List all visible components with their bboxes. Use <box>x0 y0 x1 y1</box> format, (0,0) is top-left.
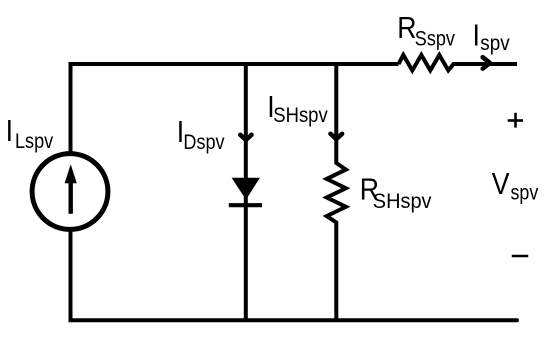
wire top rail with series resistor path <box>71 64 399 154</box>
svg-text:I: I <box>473 19 480 53</box>
svg-text:SHspv: SHspv <box>373 190 432 214</box>
svg-text:spv: spv <box>511 181 539 205</box>
resistor R_Sspv zigzag <box>399 55 518 70</box>
current source arrow <box>68 181 72 214</box>
arrow I_Dspv on diode branch <box>240 135 251 140</box>
minus terminal <box>512 255 528 257</box>
diode cathode bar <box>229 203 262 207</box>
svg-text:spv: spv <box>480 32 509 55</box>
arrow I_SHspv on shunt branch <box>331 134 343 139</box>
current source I_Lspv circle <box>32 154 108 230</box>
wire shunt branch with resistor R_SHspv zigzag <box>327 64 346 320</box>
svg-text:SHspv: SHspv <box>273 104 327 127</box>
wire diode branch <box>244 64 248 320</box>
svg-text:Dspv: Dspv <box>183 131 224 155</box>
svg-text:I: I <box>6 114 13 148</box>
plus terminal <box>508 119 523 122</box>
diode D triangle <box>232 178 260 200</box>
arrow I_spv on output wire <box>483 57 490 68</box>
svg-text:Lspv: Lspv <box>15 130 53 154</box>
svg-text:Sspv: Sspv <box>415 27 455 51</box>
svg-text:R: R <box>397 11 416 45</box>
wire bottom rail and left lower wire <box>71 229 518 320</box>
svg-text:V: V <box>492 167 510 201</box>
